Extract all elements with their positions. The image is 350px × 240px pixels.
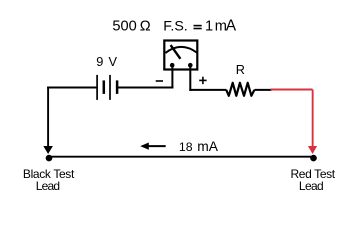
meter M1 left terminal	[170, 63, 175, 68]
wire: meter left terminal down to battery wire	[171, 65, 173, 89]
wire: resistor to red lead	[254, 89, 271, 91]
node: red test lead junction	[310, 155, 317, 162]
svg-text:R: R	[236, 63, 245, 77]
wire: bottom return wire	[48, 156, 313, 158]
battery B1 plate short	[103, 80, 106, 94]
meter M1 right terminal	[188, 63, 193, 68]
wire: red test lead horizontal	[271, 89, 313, 91]
minus polarity mark	[156, 80, 163, 82]
wire: battery to meter minus	[118, 87, 173, 89]
plus polarity mark	[199, 77, 206, 84]
svg-text:500ΩF.S.1mA: 500ΩF.S.1mA	[112, 18, 236, 35]
equals sign (drawn)	[194, 26, 202, 29]
battery B1 plate short	[116, 80, 119, 94]
meter M1 box	[164, 41, 197, 70]
wire: left wire from corner to battery	[47, 87, 96, 89]
resistor R zigzag	[226, 83, 254, 96]
svg-text:9V: 9V	[96, 54, 117, 69]
meter M1 scale arc	[165, 47, 196, 53]
svg-text:18mA: 18mA	[179, 139, 219, 154]
svg-text:Lead: Lead	[299, 179, 324, 193]
wire: left vertical to black lead	[47, 87, 49, 147]
node: black test lead junction	[46, 155, 53, 162]
red arrowhead	[308, 146, 317, 154]
black arrowhead	[43, 146, 53, 154]
battery B1 plate long	[96, 75, 98, 100]
wire: red test lead vertical	[312, 90, 314, 147]
battery B1 plate long	[109, 75, 111, 100]
current flow arrow 18 mA	[148, 145, 166, 147]
wire: meter plus to resistor	[189, 89, 226, 91]
wire: meter right terminal down	[189, 65, 191, 91]
meter M1 needle	[171, 45, 181, 59]
svg-text:Lead: Lead	[36, 179, 60, 193]
